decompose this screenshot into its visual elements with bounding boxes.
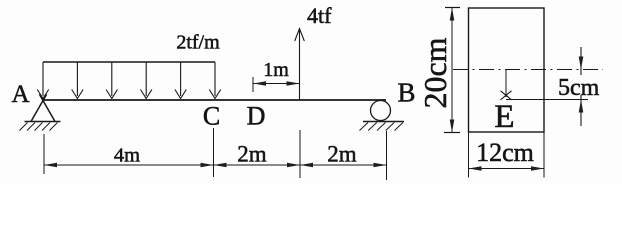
- svg-text:A: A: [11, 81, 29, 108]
- svg-text:1m: 1m: [263, 59, 289, 81]
- svg-text:20cm: 20cm: [417, 37, 453, 108]
- svg-text:2m: 2m: [327, 142, 357, 167]
- svg-text:2tf/m: 2tf/m: [176, 32, 220, 54]
- svg-text:B: B: [397, 78, 415, 108]
- svg-text:D: D: [247, 102, 266, 131]
- svg-text:E: E: [494, 99, 514, 135]
- svg-text:C: C: [203, 102, 220, 131]
- svg-text:4m: 4m: [114, 145, 140, 167]
- svg-text:4tf: 4tf: [307, 3, 332, 28]
- svg-text:12cm: 12cm: [476, 138, 534, 167]
- svg-text:2m: 2m: [237, 142, 267, 167]
- svg-text:5cm: 5cm: [558, 75, 600, 101]
